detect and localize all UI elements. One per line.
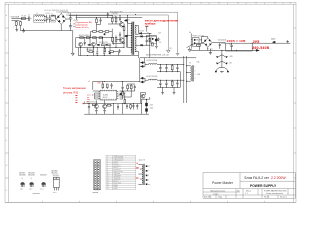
svg-text:транс. Т2: транс. Т2 [139,160,146,162]
wire row31 [91,29,113,38]
wire output bus v1 [183,56,185,103]
svg-text:15: 15 [274,3,276,5]
svg-text:14: 14 [107,181,109,183]
svg-text:13: 13 [237,3,239,5]
svg-text:С19: С19 [114,16,117,18]
resistor R33 [122,91,124,99]
capacitor C51 [122,84,124,91]
transistor Q2 [119,38,124,43]
wire [69,13,71,30]
node junction dots bus [96,15,135,18]
svg-text:6: 6 [107,3,108,5]
fuse F1 [21,18,25,20]
svg-text:+12В выход: +12В выход [113,175,121,177]
resistor R13 [108,51,115,53]
capacitor C31 [230,43,232,51]
capacitor C28 [157,38,159,42]
resistor R37 [92,104,96,106]
svg-text:+5В: +5В [229,63,232,65]
svg-text:12: 12 [107,177,109,179]
svg-text:R47: R47 [198,74,201,76]
svg-text:э б к: э б к [29,188,32,190]
resistor R3 [123,25,125,33]
wire bus stubs [96,23,100,30]
svg-text:+5В выход: +5В выход [113,173,120,175]
wire opto out [199,40,202,43]
svg-text:TL494: TL494 [103,94,108,96]
transistor Q11 [103,104,107,108]
wire left stub [76,38,79,56]
wire sec top lines [140,58,196,63]
svg-text:U2: U2 [147,33,149,35]
svg-text:+ С60: + С60 [149,105,153,107]
ground ch1 [161,91,164,94]
svg-text:220В ± 10В: 220В ± 10В [227,39,247,43]
capacitor C53 [87,104,90,111]
svg-text:2SC945: 2SC945 [19,172,25,174]
node end arrow [256,49,259,51]
diode D9 [102,33,105,35]
svg-text:11: 11 [107,175,109,177]
transformer T4 core [143,164,144,185]
svg-text:D17 С25: D17 С25 [138,31,144,33]
svg-text:база Q1: база Q1 [113,163,118,165]
node junction dots ch2 [160,80,177,87]
svg-text:Листов 1: Листов 1 [280,197,287,199]
annotation rail point (red) [83,103,84,105]
capacitor C5 electrolytic [69,15,73,21]
resistor R2 [115,16,117,24]
capacitor C8 [119,32,121,38]
wire Q1 collector [108,22,125,27]
resistor R35 [127,84,129,91]
svg-text:R23 С20 R24 D13: R23 С20 R24 D13 [79,35,91,37]
transistor Q1 [119,22,124,27]
node terminal tent 1 [216,55,227,58]
diode D28 [140,77,145,79]
capacitor C50 [111,83,113,89]
wire mid column [124,16,128,48]
svg-text:С5: С5 [68,13,70,15]
svg-text:около 30 кГц: около 30 кГц [76,27,90,29]
resistor R11 [107,44,111,46]
svg-text:Блок FA-5-2 ver: Блок FA-5-2 ver [245,176,270,180]
diode D25 [272,41,275,43]
svg-text:Q5 R26 С22: Q5 R26 С22 [86,49,95,51]
svg-text:2: 2 [32,3,33,5]
capacitor C1 [28,16,31,21]
transistor package 2SC945 [19,172,26,190]
node junction dots driver [81,38,124,56]
svg-text:С2 С3: С2 С3 [45,13,49,15]
svg-text:Лит: Лит [237,190,240,192]
resistor R39 [130,104,132,110]
annotation regulation (red) [63,87,87,94]
capacitor C7 [119,16,121,22]
wire fb top [93,81,140,90]
wire rail C [78,55,131,57]
svg-text:2.2 200W: 2.2 200W [271,176,286,180]
diode D27 [140,65,145,67]
ground enclosure inner [167,50,171,53]
ground ch2 [173,91,176,94]
resistor R5 [111,35,113,43]
resistor R41 [171,80,173,87]
capacitor C38 electrolytic [159,80,161,87]
capacitor C52 [134,85,136,91]
resistor R40 [171,65,173,72]
node junction dots fb [93,91,125,95]
capacitor C32 electrolytic [159,65,161,72]
transformer T1 secondary winding [135,25,136,51]
capacitor C34 [176,65,178,72]
svg-text:2У5: 2У5 [253,39,261,44]
svg-text:7: 7 [126,3,127,5]
wire secondary to bus [143,33,152,57]
diode D18 [119,93,122,95]
svg-text:POWER SUPPLY: POWER SUPPLY [250,184,277,188]
IC U1 TL494 [98,90,118,100]
svg-text:кон: кон [148,184,150,186]
ground aux [209,51,212,54]
svg-text:3: 3 [51,3,52,5]
ground opto [155,46,158,48]
transistor Q12 [141,94,145,98]
capacitor C30 [219,43,221,49]
node junction dots ch1 [160,65,177,72]
wire right drop cluster [84,97,150,114]
inductor L3 [148,63,157,64]
diode D14 [138,32,142,34]
capacitor C40 [176,80,178,87]
diode D7 [87,44,91,46]
svg-text:5: 5 [88,3,89,5]
wire ch2 out [157,79,183,81]
svg-text:8: 8 [144,3,145,5]
capacitor C12 electrolytic [146,39,148,44]
svg-text:Г: Г [6,90,7,92]
wire ch1 join [140,63,149,67]
capacitor C11 [103,50,105,55]
ground HV line end [286,40,289,42]
diode D6 [124,35,128,37]
resistor R8 [93,37,97,39]
svg-text:база Q2: база Q2 [113,167,118,169]
node junction dots bus [183,65,185,81]
capacitor C39 electrolytic [165,80,167,87]
transistor Q10 [94,104,98,108]
wire fb pins left [93,91,99,99]
svg-text:11: 11 [200,3,202,5]
capacitor C56 [136,104,138,110]
node junction dots bottom rail [89,103,133,105]
svg-text:б к э: б к э [40,188,43,190]
transformer T1 primary winding [131,23,132,52]
svg-text:цоколёвка: цоколёвка [33,193,40,195]
wire voltmeter stub [145,26,148,31]
wire AC return [16,25,73,30]
wire drops bottom [89,104,123,112]
svg-text:Принципиальная: Принципиальная [210,191,225,193]
svg-text:об.св: об.св [87,95,91,97]
optocoupler U2 LED [151,36,158,44]
capacitor C6 electrolytic [69,23,73,29]
annotation fb pin labels (red) [87,95,91,106]
wire left cluster vertical [76,15,78,21]
capacitor C55 [132,104,134,110]
ground primary left [71,53,74,55]
wire aux input [191,33,192,48]
svg-text:PE: PE [170,48,172,50]
svg-text:Подп.: Подп. [218,197,223,199]
resistor R10 [102,44,106,46]
capacitor C10 [96,50,98,55]
capacitor C9 [84,40,86,45]
diode D5 [124,19,128,21]
diode D15 [140,35,144,37]
ground enclosure outer [176,53,180,55]
svg-text:1: 1 [14,3,15,5]
svg-text:17: 17 [107,186,109,188]
svg-text:С28: С28 [158,33,161,35]
svg-text:вых: вых [210,49,213,51]
node junction dots secondary [147,33,150,45]
svg-text:+12В: +12В [229,56,233,58]
resistor R4 [115,35,117,43]
capacitor C59 [126,104,128,109]
wire fb pins right [120,91,128,99]
svg-text:2SC2235: 2SC2235 [28,175,35,177]
wire vertical stubs driver [81,38,119,56]
svg-text:Power Master: Power Master [212,181,234,185]
node T4 right labels [148,166,151,186]
svg-text:L5 С36 С37 R44: L5 С36 С37 R44 [146,60,157,62]
svg-text:R32: R32 [98,82,101,84]
wire ch2 gnd rail [157,86,180,88]
capacitor C33 electrolytic [165,65,167,72]
svg-text:эмиттер Q2: эмиттер Q2 [113,169,120,171]
svg-text:С61 IC2 R52 С62: С61 IC2 R52 С62 [86,102,97,104]
connector JP1 header [93,160,101,194]
wire output bus v2 [186,56,188,103]
wire T1 secondary leads [135,25,140,58]
wire opto [146,36,156,47]
svg-text:С1: С1 [28,15,30,17]
svg-text:16: 16 [289,3,291,5]
transistor package BD239 [52,170,60,193]
diode D26 [140,61,145,63]
svg-text:18: 18 [107,188,109,190]
svg-text:POWER MASTER ELECTRIC: POWER MASTER ELECTRIC [264,190,287,193]
svg-text:PS-ON: PS-ON [113,181,117,183]
inductor L2 [51,15,56,22]
capacitor C54 [117,107,119,110]
node pin table text [107,155,123,190]
wire HV DC line [226,43,291,51]
node terminal tent 2 [216,61,227,64]
transformer T4 pads [146,165,148,185]
svg-text:б к э: б к э [53,192,56,194]
transformer T2 winding [190,65,193,81]
svg-text:16: 16 [107,184,109,186]
resistor R12 [87,51,94,53]
svg-text:10мк: 10мк [150,108,154,110]
svg-text:+: + [72,17,73,19]
svg-text:1 : 1: 1 : 1 [245,193,248,195]
wire bottom rail [84,100,140,103]
node AC part labels [13,13,76,29]
node junction dots rail [112,15,127,17]
transistor Q3 [79,43,83,47]
resistor R38 [106,104,112,106]
svg-text:400В: 400В [221,43,225,45]
svg-text:14: 14 [255,3,257,5]
resistor R14b [104,48,106,51]
wire T2 leads [187,66,191,81]
annotation high frequency (red) [76,22,93,29]
svg-text:обратная связь: обратная связь [113,171,123,173]
ground earth [15,27,18,31]
svg-text:1н: 1н [229,44,231,46]
resistor R7 [86,37,90,39]
capacitor C2 [46,15,48,23]
svg-text:-5В выход: -5В выход [113,177,120,179]
svg-text:т.1: т.1 [88,81,90,83]
node junction dots right drop [141,100,146,104]
inductor L4 [148,79,157,80]
wire enclosure top outer [63,12,178,53]
wire ch1 out [157,64,183,66]
wire aux output [191,37,225,51]
svg-text:10: 10 [181,3,183,5]
resistor R14 [149,38,151,42]
wire Q2 base [112,33,124,44]
annotation voltmeter point (red) [145,20,179,29]
svg-text:-12В выход: -12В выход [113,179,120,181]
resistor R6 [80,37,84,39]
resistor R29 [105,31,109,33]
svg-text:+: + [72,25,73,27]
wire HV+ rail [69,16,112,18]
resistor R30 [102,81,104,89]
capacitor C58 electrolytic (solid) [145,108,148,114]
wire under IC [96,100,104,110]
svg-text:регулир. R32: регулир. R32 [63,92,79,95]
node junction dots fb top [104,80,122,82]
resistor R27 [93,31,97,33]
wire terminal stem [221,50,223,67]
diode D8 [96,44,100,46]
wire output feed diagonal [187,43,204,47]
fuse F2 [197,44,201,46]
svg-text:L6 С41 С42 R45: L6 С41 С42 R45 [146,76,157,78]
svg-text:BD241C: BD241C [52,173,59,175]
wire T4 leads [138,164,142,184]
svg-text:2SC5027: 2SC5027 [40,175,47,177]
capacitor C15 [107,13,109,18]
node T2 pin labels [195,67,196,80]
capacitor C57 electrolytic (solid) [145,100,148,109]
svg-text:НЧ ВЫПРЯМИТЕЛИ +12В +5В: НЧ ВЫПРЯМИТЕЛИ +12В +5В [146,54,169,56]
resistor R48 [152,43,154,46]
svg-text:Т3: Т3 [189,63,191,65]
diode D16 [140,44,144,46]
resistor R1 [111,18,113,24]
svg-text:360-540В: 360-540В [252,46,269,50]
capacitor C3 [48,15,50,23]
svg-text:э б к: э б к [20,188,23,190]
bridge rectifier BR1 [56,14,66,25]
annotation red pin dashes [75,95,77,102]
svg-text:2SC2625: 2SC2625 [53,175,59,177]
wire enclosure top inner [66,15,168,50]
svg-text:упр: упр [87,97,90,99]
annotation table marks (red) [136,168,139,178]
node junction dots aux [202,40,208,49]
wire rail A [76,37,113,39]
svg-text:12: 12 [218,3,220,5]
svg-text:D14 R28 С21: D14 R28 С21 [99,42,108,44]
svg-text:разъём: разъём [93,192,98,194]
connector X1 [12,19,16,21]
svg-text:КД226: КД226 [271,38,276,40]
wire [26,18,29,20]
svg-text:102: 102 [159,42,162,44]
wire ch1 gnd rail [157,71,180,73]
transistor package 2SC5027 [40,175,47,191]
wire fb right cluster [123,84,135,97]
annotation T4 marks (red) [136,163,138,168]
svg-text:2SC1815: 2SC1815 [19,175,26,177]
svg-text:Точное напряжение: Точное напряжение [63,87,87,90]
svg-text:корпус: корпус [113,188,117,190]
capacitor C23 [119,49,121,53]
wire ch2 join [140,66,149,82]
thermistor RT [15,21,17,26]
transformer T4 left winding [142,164,143,184]
svg-text:D1-D4 1N5408: D1-D4 1N5408 [56,12,67,14]
resistor R16 [96,17,98,24]
varistor RV [19,21,21,26]
svg-text:BD239C: BD239C [52,170,59,172]
resistor R36 [130,84,132,91]
wire T1 top lead [127,21,129,23]
wire [15,19,21,21]
node junction dots output line [222,49,237,51]
node terminal dome [215,67,228,73]
node junction dots T2 [186,66,188,81]
svg-text:Изм Лист: Изм Лист [204,197,212,199]
svg-text:2SC2500: 2SC2500 [28,172,35,174]
wire aux ground stub [209,49,211,51]
svg-text:Вх: Вх [189,32,191,34]
svg-text:эмиттер Q1: эмиттер Q1 [113,165,120,167]
resistor R31 [106,84,108,89]
inductor L1 common-mode choke [34,15,45,23]
wire [51,12,69,30]
resistor R34 [124,93,126,104]
svg-text:13: 13 [107,179,109,181]
node margin zone marks [6,3,291,192]
transformer T1 core [132,22,134,55]
svg-text:~220/110В: ~220/110В [10,16,20,18]
ground bus small [188,47,191,51]
ground fb2 [103,110,106,112]
wire T1 primary leads [126,23,130,47]
wire T1 bottom return [131,55,138,57]
wire gnd drops [163,72,181,92]
wire rail B [76,47,124,49]
